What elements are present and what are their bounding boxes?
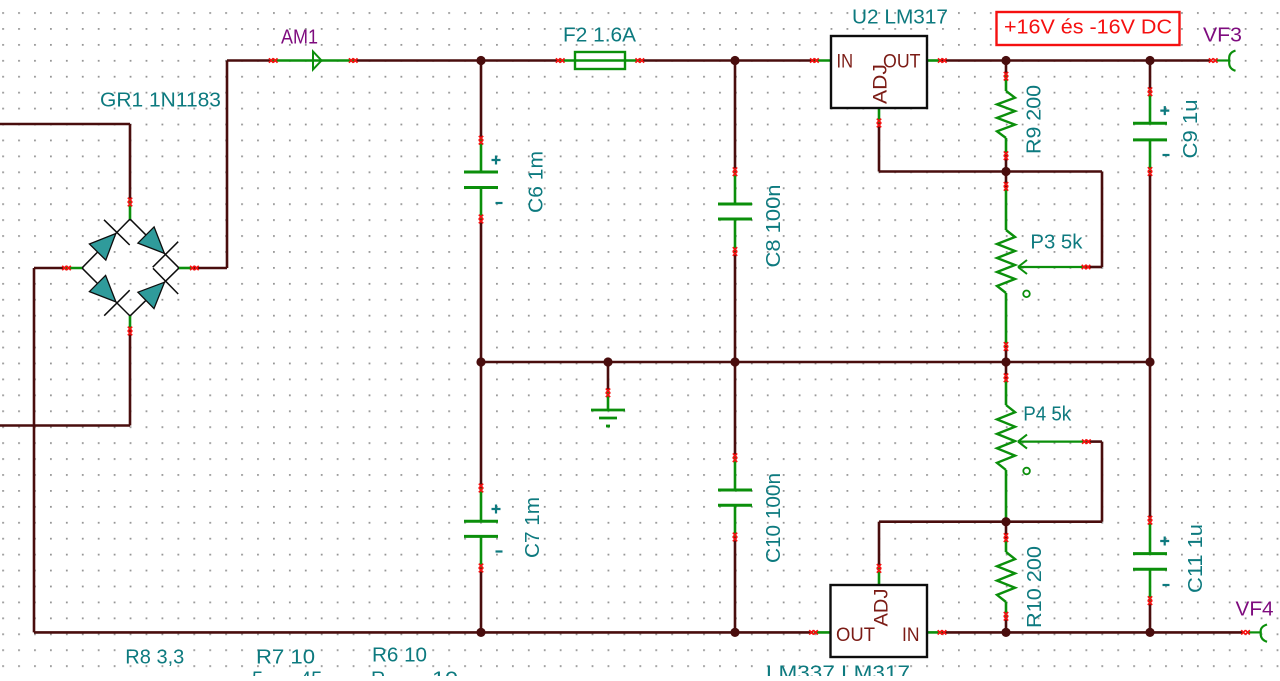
svg-text:5: 5 [252, 669, 263, 677]
svg-text:R10 200: R10 200 [1024, 546, 1046, 628]
svg-text:C7 1m: C7 1m [522, 497, 544, 558]
svg-text:P4 5k: P4 5k [1023, 404, 1072, 426]
svg-text:C9 1u: C9 1u [1180, 100, 1202, 159]
svg-text:LM337 LM317: LM337 LM317 [766, 663, 910, 677]
svg-text:P3 5k: P3 5k [1030, 231, 1083, 253]
svg-text:C6 1m: C6 1m [526, 151, 548, 213]
svg-text:AM1: AM1 [281, 27, 318, 49]
svg-text:F2 1.6A: F2 1.6A [563, 25, 637, 47]
svg-text:10: 10 [432, 669, 458, 677]
svg-text:C8 100n: C8 100n [763, 185, 785, 268]
svg-text:GR1 1N1183: GR1 1N1183 [100, 90, 221, 112]
svg-text:C10 100n: C10 100n [763, 473, 785, 563]
svg-text:OUT: OUT [836, 625, 875, 646]
svg-text:R7 10: R7 10 [256, 646, 315, 668]
svg-text:VF3: VF3 [1203, 25, 1242, 47]
svg-text:R: R [371, 669, 385, 677]
svg-text:+16V és -16V DC: +16V és -16V DC [1004, 17, 1172, 39]
svg-text:ADJ: ADJ [872, 589, 893, 627]
svg-text:R8 3,3: R8 3,3 [125, 646, 184, 668]
svg-text:C11 1u: C11 1u [1185, 524, 1207, 593]
svg-text:VF4: VF4 [1236, 599, 1274, 621]
svg-text:IN: IN [902, 625, 920, 646]
svg-text:45: 45 [300, 669, 322, 677]
svg-text:IN: IN [837, 51, 854, 72]
svg-text:R9 200: R9 200 [1024, 85, 1046, 154]
svg-text:U2 LM317: U2 LM317 [852, 7, 948, 29]
svg-text:R6 10: R6 10 [372, 644, 427, 666]
svg-text:ADJ: ADJ [871, 64, 892, 104]
